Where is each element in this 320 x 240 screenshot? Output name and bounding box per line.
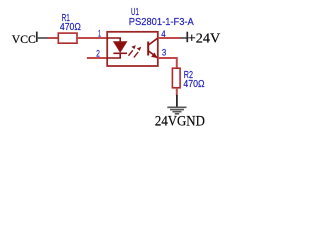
optocoupler U1 [107, 32, 158, 66]
wire R2 to ground [176, 88, 178, 96]
svg-text:1: 1 [98, 29, 101, 39]
light arrow 1 [129, 45, 136, 56]
svg-text:VCC: VCC [12, 32, 36, 46]
phototransistor emitter [148, 51, 158, 58]
wire stub U1 pin 2 [87, 57, 107, 59]
ground symbol 24VGND [167, 95, 186, 114]
LED cathode lead [107, 53, 120, 58]
svg-text:470Ω: 470Ω [183, 79, 205, 90]
optocoupler U1 body [107, 32, 158, 66]
phototransistor base bar [147, 42, 149, 56]
wire U1 pin 4 to +24V port [158, 37, 181, 39]
svg-text:24VGND: 24VGND [155, 114, 205, 130]
wire U1 pin 3 to R2 [158, 58, 177, 68]
svg-text:PS2801-1-F3-A: PS2801-1-F3-A [129, 17, 194, 28]
svg-text:+24V: +24V [188, 32, 221, 47]
svg-text:2: 2 [96, 49, 100, 59]
LED cathode bar [113, 52, 127, 54]
light arrow 2 [134, 47, 141, 58]
wire VCC to R1 [48, 37, 59, 39]
power port +24V [181, 32, 221, 47]
resistor R1 [58, 33, 77, 43]
LED triangle [114, 42, 127, 52]
resistor R2 [172, 68, 180, 88]
LED anode lead [107, 38, 120, 42]
svg-text:3: 3 [162, 48, 166, 58]
power port VCC [12, 32, 48, 46]
svg-text:470Ω: 470Ω [60, 22, 81, 33]
wire R1 to U1 pin 1 [77, 37, 107, 39]
phototransistor collector [148, 38, 158, 45]
